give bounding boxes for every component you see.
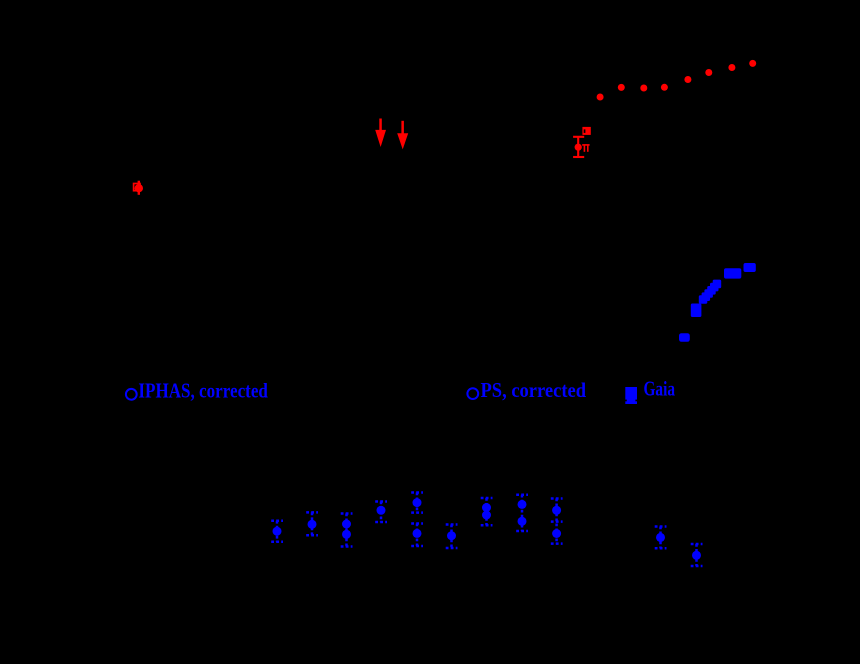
col 6	[450, 525, 453, 549]
svg-text:IPHAS, corrected: IPHAS, corrected	[138, 379, 268, 403]
red upper-limit arrow 1	[375, 119, 386, 148]
legend: Gaia filled square marker	[625, 387, 637, 404]
col 1	[276, 521, 279, 542]
col 7	[485, 498, 488, 525]
col 5 upper	[416, 493, 419, 513]
red small square glyph above	[582, 127, 590, 135]
col 8	[521, 495, 524, 531]
legend: PS open circle	[467, 388, 478, 399]
svg-text:PS, corrected: PS, corrected	[481, 378, 587, 402]
col 2	[311, 512, 314, 535]
red data point with open square marker, left	[134, 184, 140, 191]
col 5 lower	[416, 524, 419, 547]
col 10	[659, 527, 662, 549]
bottom blue series with dotted error bars	[271, 493, 702, 567]
bottom blue circles	[273, 498, 702, 560]
col 4	[380, 502, 383, 523]
red point with error bar near 578,147	[573, 137, 584, 157]
col 3	[345, 514, 348, 547]
col 9	[555, 499, 558, 544]
red pi-shaped glyph	[582, 144, 589, 152]
blue Gaia marker cluster upper right	[679, 263, 756, 342]
red upper-limit arrow 2	[397, 121, 408, 150]
red rising sequence of dots	[597, 60, 757, 101]
red filled circle, left point	[135, 184, 143, 192]
col 11	[695, 544, 698, 566]
legend: IPHAS open circle	[126, 389, 137, 400]
svg-text:Gaia: Gaia	[644, 377, 676, 401]
red error bar, left point	[138, 181, 140, 195]
